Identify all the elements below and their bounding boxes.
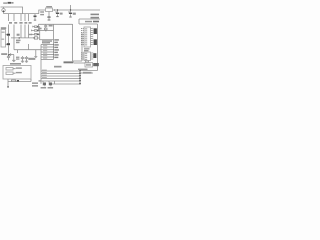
text bridge label (17, 34, 20, 36)
switch S1 box (6, 68, 13, 71)
wire rung r7 (41, 59, 54, 61)
text r2 right (17, 80, 19, 82)
junction trunk dots (53, 44, 54, 45)
text c6 labels (40, 11, 44, 12)
wire left trunk (40, 45, 42, 84)
diode DB (37, 30, 39, 32)
text gnd label (64, 61, 74, 63)
diode D1 body (8, 53, 10, 56)
diode DC (37, 34, 39, 36)
text reg label (46, 6, 52, 7)
ground G3 (56, 16, 58, 17)
polarity mark c8 (68, 11, 69, 12)
IC U3 pins (83, 53, 93, 59)
cap C8 plates (69, 13, 72, 14)
IC U2 box (84, 27, 91, 47)
wire right vertical (97, 24, 99, 71)
capacitor C11 gnd (25, 56, 28, 62)
resistor RB box (35, 30, 37, 32)
wire U3-U4 links (86, 61, 89, 63)
text c10 c11 (28, 58, 35, 60)
IC U3 right text (93, 53, 96, 58)
wire gnd bus (11, 37, 34, 39)
wire top link right (79, 23, 98, 25)
capacitor C8 (70, 5, 72, 16)
ground G4 (69, 17, 71, 18)
text c2 label (14, 22, 17, 24)
wire right edge link (79, 19, 100, 24)
text c1 label (9, 22, 12, 24)
IC U3 box (84, 52, 91, 61)
capacitor C4 column (28, 14, 30, 50)
wire rung r4 (41, 51, 54, 53)
ground G5 (34, 20, 36, 21)
resistor RC box (35, 34, 37, 36)
text bottom left bit (39, 80, 42, 81)
crystal box (34, 37, 37, 39)
wire brung b6 (52, 83, 80, 85)
wire brung b5 (41, 80, 80, 82)
wire trunk (53, 24, 55, 60)
text reg gnd (16, 57, 19, 58)
regulator U1 box (46, 8, 53, 12)
text brung labels (42, 69, 47, 72)
IC U2 pins (83, 29, 93, 45)
cap C7 plates (56, 13, 59, 14)
text above h1 (78, 69, 88, 70)
LED2 body (49, 83, 52, 86)
wire 5V rail (53, 9, 101, 11)
wire led link (54, 81, 56, 84)
text led2 label (48, 87, 54, 89)
resistor RA box (35, 26, 37, 28)
wire reg out gnd (14, 50, 41, 53)
text xtal b (39, 28, 42, 30)
wire drop to rung0 (39, 27, 41, 40)
diode D1 (11, 54, 14, 56)
wire box bottom drop (7, 79, 9, 86)
capacitor C7 (57, 10, 59, 16)
title text (3, 2, 7, 3)
wire led row B left (32, 30, 35, 32)
junction gnd bus (33, 37, 34, 38)
cap blob B2 (7, 43, 10, 45)
text led1 label (41, 87, 47, 89)
wire bottom right h1 (80, 70, 98, 72)
capacitor C9 gnd (7, 55, 10, 61)
text above link (85, 21, 92, 23)
wire led row A (33, 26, 40, 28)
text bridge rows (16, 40, 21, 42)
text diode label (1, 53, 7, 55)
crystal X1 (44, 28, 47, 30)
IC U2 right text (94, 28, 97, 34)
wire ic bus vertical (81, 33, 83, 61)
serial box (3, 66, 31, 80)
cap blob B1 (7, 34, 10, 36)
resistor R2 (12, 80, 16, 82)
text top right corner (93, 21, 99, 23)
wire rung r2 (41, 46, 54, 48)
wire bottom rail (4, 13, 39, 15)
capacitor C6 (48, 12, 50, 20)
capacitor CX1 (44, 24, 47, 28)
wire top rail (1, 7, 23, 14)
wire top link (39, 23, 73, 25)
IC U2 pin numbers (81, 27, 82, 30)
text plug label (1, 27, 6, 29)
IC U4 inner text (86, 64, 91, 66)
wire brung b2 (41, 73, 80, 75)
wire brung b1 (41, 70, 80, 72)
wire rung r6 (41, 56, 54, 58)
text c5 label (29, 22, 32, 24)
capacitor C10 gnd (21, 56, 24, 62)
diode LED1 (43, 81, 45, 86)
text c3 label (19, 22, 22, 24)
text c8 label (73, 13, 76, 15)
text trunk right labels (54, 39, 59, 40)
junction j0 (54, 9, 55, 10)
text block a (42, 40, 52, 41)
wire DB box vertical (73, 24, 83, 61)
text block b (42, 42, 50, 43)
diode LED2 (49, 81, 51, 86)
junction j2 (70, 9, 71, 10)
wire rung r1 (41, 44, 54, 46)
wire xtal row (39, 29, 54, 31)
plug inner marks (2, 32, 5, 33)
AC source V1 (2, 9, 5, 12)
wire main negative drop (8, 14, 10, 54)
wire bottom right h2 (80, 72, 93, 74)
wire rung r3 (41, 49, 54, 51)
IC U2 inner text (85, 28, 87, 29)
wire ic link (74, 62, 85, 64)
text box title (10, 63, 21, 65)
plug box (1, 30, 6, 48)
wire rung r5 (41, 54, 54, 56)
wire led row C (32, 34, 40, 36)
junction j1 (57, 9, 58, 10)
IC U3 pin numbers (81, 51, 82, 54)
text net right r2 (91, 17, 100, 19)
text xtal a (49, 25, 53, 27)
text switch labels (16, 67, 22, 68)
wire plug stubs (6, 35, 7, 45)
LED1 body (43, 83, 46, 86)
ground G1 (12, 55, 15, 62)
junction bus dot (18, 37, 20, 39)
cap C5 plates (34, 16, 37, 18)
wire gnd stub mid (34, 50, 37, 58)
text net right r1 (91, 14, 100, 16)
wire bottom wire (8, 79, 31, 82)
ground dot bottom (7, 86, 9, 87)
text under box (32, 82, 38, 84)
IC U4 box (85, 63, 93, 68)
ground G2 (48, 20, 51, 21)
diode DA (37, 26, 39, 28)
polarity mark c7 (55, 11, 56, 12)
switch S2 box (6, 72, 13, 75)
IC U3 inner text (85, 53, 87, 54)
capacitor C5 to ground (34, 14, 36, 20)
wire rung r0 (39, 39, 53, 41)
connector pins (79, 70, 81, 71)
IC U2 right pin numbers (92, 27, 93, 30)
text below h1 (83, 72, 92, 74)
text c4 label (24, 22, 27, 24)
text left small (29, 34, 32, 35)
IC U4 right text (93, 63, 99, 66)
IC U3 right pin numbers (92, 52, 93, 55)
text below U2 (84, 48, 90, 49)
text rung labels (43, 42, 47, 45)
wire connector strip (79, 71, 81, 85)
wire brung b4 (41, 78, 80, 80)
wire step to regulator (39, 10, 46, 14)
wire brung b3 (41, 75, 80, 77)
capacitor C3 column (24, 14, 26, 38)
wire xtal left drop (38, 24, 40, 30)
text c7 label (60, 13, 63, 15)
capacitor C2 column (20, 14, 22, 38)
junction circle dot (3, 10, 5, 12)
cap C6 plates (47, 17, 50, 18)
text mid label (54, 66, 62, 68)
wire switch stubs (13, 69, 16, 74)
capacitor C1 column (13, 14, 15, 50)
